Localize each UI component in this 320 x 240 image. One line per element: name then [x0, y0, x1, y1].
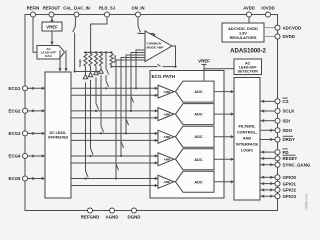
svg-text:ADC: ADC [194, 179, 203, 184]
svg-text:AMP: AMP [164, 135, 171, 139]
svg-text:GPIO0: GPIO0 [283, 175, 297, 180]
svg-text:CM_IN: CM_IN [131, 6, 144, 11]
svg-text:AND: AND [243, 136, 252, 141]
svg-text:REFIN: REFIN [27, 6, 40, 11]
svg-text:AMP: AMP [164, 90, 171, 94]
svg-text:REFOUT: REFOUT [43, 6, 61, 11]
svg-text:DVDD: DVDD [283, 34, 295, 39]
svg-text:GPIO2: GPIO2 [283, 188, 297, 193]
svg-text:REGULATORS: REGULATORS [230, 35, 257, 40]
svg-text:DETECTION: DETECTION [238, 70, 259, 74]
svg-text:DC LEAD-: DC LEAD- [50, 131, 68, 135]
svg-text:FILTERS,: FILTERS, [238, 123, 255, 128]
svg-text:RESET: RESET [283, 156, 298, 161]
svg-text:AMP: AMP [164, 157, 171, 161]
svg-text:AGND: AGND [106, 215, 119, 220]
svg-text:51kΩ: 51kΩ [113, 55, 117, 63]
svg-text:ECG2: ECG2 [9, 109, 22, 114]
svg-text:CAL_DAC_IN: CAL_DAC_IN [63, 6, 90, 11]
svg-text:09763-009: 09763-009 [305, 194, 309, 210]
svg-text:ADC: ADC [194, 157, 203, 162]
svg-text:51kΩ: 51kΩ [78, 59, 82, 67]
svg-text:VREF: VREF [198, 59, 210, 64]
svg-text:ADC: ADC [194, 112, 203, 117]
svg-text:SYNC_GANG: SYNC_GANG [283, 162, 311, 167]
svg-text:ECG5: ECG5 [9, 176, 22, 181]
svg-text:CONTROL,: CONTROL, [237, 129, 257, 134]
svg-text:MODE AMP: MODE AMP [147, 45, 164, 49]
svg-text:DGND: DGND [128, 215, 141, 220]
svg-text:IOVDD: IOVDD [261, 6, 274, 11]
svg-text:GPIO1: GPIO1 [283, 181, 297, 186]
svg-text:SDI: SDI [283, 118, 290, 123]
svg-text:SDO: SDO [283, 128, 293, 133]
svg-text:AVDD: AVDD [243, 6, 255, 11]
svg-text:ECG4: ECG4 [9, 154, 22, 159]
svg-text:INTERFACE: INTERFACE [236, 142, 258, 147]
svg-text:CS: CS [283, 99, 289, 104]
svg-text:REFGND: REFGND [81, 215, 100, 220]
svg-text:PD: PD [283, 150, 289, 155]
svg-text:LOGIC: LOGIC [241, 148, 254, 153]
svg-text:ECG1: ECG1 [9, 86, 22, 91]
svg-text:VREF: VREF [46, 24, 58, 29]
svg-text:ADC: ADC [194, 89, 203, 94]
svg-text:AMP: AMP [164, 112, 171, 116]
svg-text:ADCVDD: ADCVDD [283, 25, 302, 30]
svg-text:ECG3: ECG3 [9, 131, 22, 136]
svg-text:AMP: AMP [164, 180, 171, 184]
svg-text:OFF/MUXES: OFF/MUXES [48, 136, 69, 140]
svg-text:DRDY: DRDY [283, 137, 296, 142]
svg-text:SCLK: SCLK [283, 109, 296, 114]
svg-text:ECG PATH: ECG PATH [152, 74, 176, 79]
svg-text:GPIO3: GPIO3 [283, 194, 297, 199]
svg-text:ADC: ADC [194, 134, 203, 139]
svg-text:DAC: DAC [45, 54, 52, 58]
svg-text:RLD_SJ: RLD_SJ [99, 6, 116, 11]
svg-text:ADAS1000-2: ADAS1000-2 [230, 49, 266, 55]
